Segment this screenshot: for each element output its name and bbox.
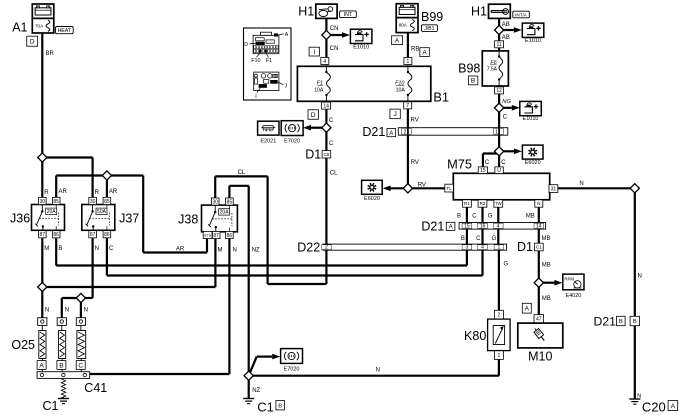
svg-text:15: 15 [464,224,470,230]
svg-text:2: 2 [498,312,501,318]
svg-text:A: A [422,49,427,56]
svg-text:87: 87 [213,233,219,239]
svg-text:MB: MB [542,262,551,268]
svg-text:31: 31 [551,186,557,192]
svg-text:E7020: E7020 [284,138,300,144]
svg-text:C: C [501,160,506,166]
svg-text:E6020: E6020 [364,196,380,202]
svg-text:N: N [95,246,99,252]
svg-text:N: N [84,307,88,313]
svg-text:TL: TL [446,186,452,191]
svg-text:12: 12 [496,88,502,94]
svg-text:87: 87 [90,232,96,238]
svg-text:87a: 87a [204,232,211,237]
svg-text:F1: F1 [266,58,272,64]
svg-text:70A: 70A [35,23,44,28]
svg-text:M10: M10 [528,349,552,363]
svg-text:CL: CL [238,170,246,176]
svg-text:AR: AR [59,189,68,195]
svg-text:C: C [329,118,334,124]
svg-text:20A: 20A [220,210,230,216]
svg-text:TW: TW [495,201,502,206]
svg-text:4: 4 [481,245,484,251]
svg-text:B: B [278,403,282,409]
svg-text:86: 86 [104,232,110,238]
svg-text:C41: C41 [84,381,107,395]
svg-text:CL: CL [330,170,338,176]
svg-text:7: 7 [406,103,409,109]
svg-text:15: 15 [480,168,486,174]
svg-text:N: N [65,307,69,313]
svg-text:E6020: E6020 [525,160,541,166]
svg-text:1: 1 [495,130,498,136]
svg-text:E4020: E4020 [565,293,581,299]
svg-text:C20: C20 [642,399,666,414]
svg-text:C: C [503,114,508,120]
svg-text:D: D [311,112,316,119]
svg-text:86: 86 [227,233,233,239]
svg-text:MB: MB [542,236,551,242]
svg-text:O25: O25 [11,338,35,352]
svg-text:4: 4 [497,224,500,230]
svg-text:85: 85 [104,199,110,205]
svg-text:AB: AB [502,35,510,41]
svg-text:A: A [449,225,453,231]
svg-text:2: 2 [404,130,407,136]
svg-text:80A: 80A [399,23,408,28]
svg-text:CN: CN [330,46,339,52]
svg-text:C: C [476,236,481,242]
svg-text:B: B [461,236,465,242]
svg-text:BR: BR [46,51,55,57]
svg-text:RB: RB [411,47,419,53]
svg-text:B98: B98 [458,62,480,76]
svg-text:D21: D21 [362,125,385,139]
svg-text:M75: M75 [447,157,472,172]
svg-text:MB: MB [526,214,535,220]
svg-text:A: A [285,32,289,38]
svg-text:C1: C1 [257,400,274,415]
svg-text:E7020: E7020 [284,366,300,372]
svg-text:H1: H1 [298,5,314,19]
svg-text:11: 11 [496,42,501,48]
svg-text:M: M [44,246,49,252]
svg-text:D1: D1 [305,147,321,161]
svg-text:J37: J37 [119,211,139,225]
svg-text:B99: B99 [421,10,443,24]
svg-text:E1010: E1010 [353,44,369,50]
svg-text:86: 86 [53,232,59,238]
svg-text:NZ: NZ [252,388,260,394]
svg-text:F10: F10 [251,58,260,64]
svg-text:K80: K80 [464,329,486,343]
svg-text:R: R [95,190,100,196]
svg-text:C8: C8 [323,152,329,157]
svg-text:E2021: E2021 [260,138,276,144]
svg-text:INT: INT [344,12,353,18]
svg-text:50A: 50A [97,209,107,215]
svg-text:J: J [285,84,288,90]
svg-text:G: G [504,261,509,267]
svg-text:AB: AB [502,22,510,28]
svg-text:HEAT: HEAT [58,28,72,34]
svg-text:RPM: RPM [564,276,574,281]
svg-text:C: C [329,141,334,147]
svg-text:N: N [45,307,49,313]
svg-text:R1: R1 [464,201,470,206]
svg-text:7.5A: 7.5A [487,67,498,73]
svg-text:D21: D21 [594,315,617,329]
svg-text:85: 85 [227,199,233,205]
svg-text:RV: RV [411,118,419,124]
svg-text:B: B [58,246,62,252]
svg-text:2: 2 [325,245,328,251]
svg-text:D: D [244,42,248,48]
svg-text:I: I [255,94,256,100]
svg-text:A: A [671,403,676,410]
svg-text:1: 1 [498,353,501,359]
svg-text:H1: H1 [471,5,487,19]
svg-text:14: 14 [536,224,542,230]
svg-text:A: A [395,38,400,45]
svg-text:A: A [389,131,393,137]
svg-text:NG: NG [502,99,511,105]
svg-text:B: B [633,319,637,325]
svg-text:B1: B1 [433,89,449,104]
svg-text:D21: D21 [421,219,444,233]
svg-text:1: 1 [498,245,501,251]
svg-text:A: A [39,362,44,369]
svg-text:I: I [313,49,315,56]
svg-text:N: N [637,393,641,399]
svg-text:J38: J38 [178,212,198,226]
svg-text:INT/A: INT/A [515,12,528,17]
svg-text:N: N [537,201,540,206]
svg-text:RV: RV [418,182,426,188]
svg-text:D: D [30,39,35,46]
svg-text:G: G [488,214,493,220]
svg-text:A: A [525,306,530,313]
svg-text:87: 87 [40,232,46,238]
svg-text:MB: MB [542,296,551,302]
svg-text:N: N [638,273,642,279]
svg-text:B: B [471,78,475,85]
svg-text:R2: R2 [480,201,486,206]
svg-text:B: B [619,319,623,325]
svg-text:47: 47 [536,317,542,323]
svg-text:C1: C1 [43,399,59,413]
svg-text:G: G [492,236,497,242]
svg-text:NZ: NZ [252,248,260,254]
svg-text:30: 30 [90,199,96,205]
svg-text:3: 3 [466,245,469,251]
svg-text:N: N [376,368,380,374]
svg-text:10A: 10A [396,87,406,93]
svg-text:4: 4 [323,59,326,65]
svg-text:RV: RV [411,160,419,166]
svg-text:U: U [497,168,501,174]
svg-text:C: C [472,214,477,220]
svg-text:AR: AR [176,247,185,253]
svg-text:N: N [233,248,237,254]
svg-text:B: B [59,362,63,369]
svg-text:10A: 10A [314,87,324,93]
svg-text:M: M [218,248,223,254]
svg-text:20A: 20A [47,209,57,215]
svg-text:N: N [579,181,583,187]
svg-text:16: 16 [480,224,486,230]
svg-text:B: B [457,214,461,220]
svg-text:C1: C1 [536,245,542,250]
svg-text:1: 1 [407,59,410,65]
svg-text:CN: CN [330,26,339,32]
svg-text:R: R [44,190,49,196]
svg-text:AR: AR [109,189,118,195]
svg-text:C: C [485,160,490,166]
svg-text:J/B1: J/B1 [424,26,434,32]
svg-text:A1: A1 [12,20,27,34]
svg-text:30: 30 [40,199,46,205]
svg-text:30: 30 [212,199,218,205]
svg-text:D22: D22 [297,240,320,254]
svg-text:E1010: E1010 [523,116,539,122]
svg-text:C: C [109,246,114,252]
svg-text:C: C [78,362,83,369]
svg-text:85: 85 [53,199,59,205]
svg-text:14: 14 [323,103,329,109]
svg-text:J: J [393,111,396,118]
svg-text:D1: D1 [517,240,533,254]
svg-text:J36: J36 [10,211,30,225]
svg-text:E1010: E1010 [525,38,541,44]
